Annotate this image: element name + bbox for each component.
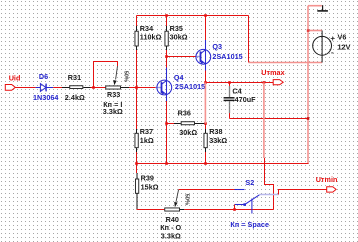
wire: Urmax branch down to switch area (pale upper part): [263, 83, 265, 159]
wire: ground column x=308 (pale): [307, 6, 309, 164]
wire: top corner to ground symbol (pale): [308, 5, 322, 7]
wire: C4 bottom to ground column: [230, 118, 309, 120]
svg-text:D6: D6: [39, 72, 48, 81]
node: Q3 emitter / Urmax: [204, 81, 207, 84]
svg-text:Uid: Uid: [9, 74, 21, 83]
node: Q4 emitter on rail: [165, 162, 168, 165]
svg-text:50%: 50%: [183, 194, 189, 205]
svg-text:R33: R33: [107, 90, 120, 99]
resistor R38: [205, 124, 207, 130]
capacitor C4: [229, 83, 231, 87]
switch S2: [235, 190, 260, 214]
svg-text:R38: R38: [209, 127, 222, 136]
svg-text:15kΩ: 15kΩ: [141, 183, 159, 192]
node: junction R35/Q3 base/Q4 collector: [165, 55, 168, 58]
svg-text:12V: 12V: [338, 42, 351, 51]
wire: Uid to diode: [15, 87, 35, 89]
svg-text:470uF: 470uF: [235, 95, 257, 104]
node: R38 bottom on rail: [204, 162, 207, 165]
svg-text:Uтmax: Uтmax: [261, 68, 284, 77]
resistor R35: [166, 16, 168, 27]
node: C4 top: [228, 81, 231, 84]
svg-text:R36: R36: [178, 109, 191, 118]
svg-text:110kΩ: 110kΩ: [140, 33, 162, 42]
transistor Q4: [157, 68, 172, 102]
svg-text:R31: R31: [68, 73, 81, 82]
node: rail junction Q3 collector: [204, 14, 207, 17]
wire: R40 wiper to S2 upper contact: [179, 189, 235, 191]
potentiometer R40 wiper arrow: [176, 190, 179, 202]
wire: Q3 emitter line down to R38 (pale): [204, 83, 206, 124]
node: R34 bottom junction on Uid wire: [135, 86, 138, 89]
svg-text:R39: R39: [141, 173, 154, 182]
node: Urmax branch down: [263, 81, 266, 84]
svg-text:30kΩ: 30kΩ: [179, 128, 197, 137]
svg-text:2SA1015: 2SA1015: [212, 52, 242, 61]
tie Urmax: [273, 80, 283, 85]
transistor Q3: [196, 40, 211, 71]
wire: D6 to R31: [53, 87, 62, 89]
node: rail junction R35: [165, 14, 168, 17]
wire: R35 bottom to Q4 collector: [166, 57, 168, 68]
wire: bottom wire R40 right to corner: [184, 209, 273, 211]
svg-text:Кп = Space: Кп = Space: [230, 220, 269, 229]
node: rail left end R37/R39: [135, 162, 138, 165]
wire: V6 plus stub (pale): [308, 30, 322, 32]
wire: Urmax horizontal: [206, 82, 274, 84]
tie Urmin: [327, 187, 336, 192]
wire: Q4 emitter down to mid rail: [166, 101, 168, 164]
resistor R36: [167, 123, 175, 125]
svg-text:R37: R37: [140, 127, 153, 136]
svg-text:1kΩ: 1kΩ: [140, 136, 154, 145]
potentiometer R33 wiper arrow: [116, 66, 118, 80]
battery V6: [313, 36, 332, 55]
resistor R39: [136, 164, 138, 174]
wire: Q3 collector to rail: [205, 16, 207, 41]
node: R31/R33/wiper loop: [92, 86, 95, 89]
wire: S2 pole to Urmin: [279, 190, 327, 195]
potentiometer R33: [94, 87, 106, 89]
svg-text:Q3: Q3: [212, 42, 222, 51]
wire: mid rail (ground): [137, 163, 309, 165]
wire: rail right end drop to V6 bottom level: [248, 16, 250, 63]
svg-text:Uтmin: Uтmin: [316, 175, 338, 184]
node: V6 plus tee: [307, 29, 310, 32]
svg-text:S2: S2: [245, 178, 254, 187]
wire: V6 minus horizontal (pale): [249, 62, 323, 64]
svg-text:50%: 50%: [123, 71, 129, 82]
wire: wiper loop of R33: [94, 62, 118, 88]
wire: Q4 base wire: [137, 87, 156, 89]
svg-text:33kΩ: 33kΩ: [209, 136, 227, 145]
svg-text:3.3kΩ: 3.3kΩ: [103, 107, 123, 116]
svg-text:3.3kΩ: 3.3kΩ: [161, 231, 181, 240]
diode D6: [36, 84, 54, 92]
svg-text:2.4kΩ: 2.4kΩ: [65, 93, 85, 102]
potentiometer R40: [165, 208, 180, 211]
resistor R34: [136, 16, 138, 27]
node: S2 bottom contact junction: [233, 208, 236, 211]
node: R36 left on Q4 emitter line: [165, 122, 168, 125]
svg-text:30kΩ: 30kΩ: [170, 33, 188, 42]
svg-text:V6: V6: [338, 32, 347, 41]
ground: [322, 5, 324, 10]
resistor R37: [136, 88, 138, 130]
resistor R31: [62, 87, 69, 89]
svg-text:1N3064: 1N3064: [33, 93, 58, 102]
node: R36 right / R38 top: [204, 122, 207, 125]
wire: top rail (V6 minus): [137, 15, 249, 17]
wire: Q3 emitter down to Urmax node: [205, 71, 207, 83]
wire: Q3 base wire from R35 bottom: [167, 56, 196, 58]
wire: R39 bottom to R40: [137, 209, 165, 211]
svg-text:2SA1015: 2SA1015: [175, 82, 205, 91]
node: C4 wire into ground column: [307, 117, 310, 120]
